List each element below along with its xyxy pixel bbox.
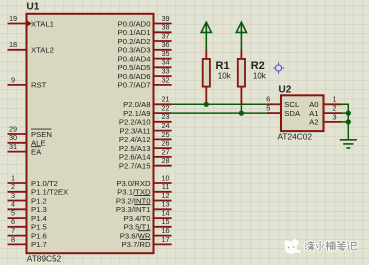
U1 pin 1 (P1.0/T2) [8,173,58,187]
U2 pin 3 (A2) [309,112,342,126]
R2 value label 10k [253,72,267,81]
svg-text:SDA: SDA [284,109,301,118]
U2 pin 6 (SCL) [266,95,300,109]
svg-text:5: 5 [11,209,15,218]
svg-text:8: 8 [11,235,15,244]
svg-text:U1: U1 [27,2,40,13]
svg-text:39: 39 [161,14,169,23]
svg-text:P1.7: P1.7 [31,240,47,249]
U1 pin 15 (P3.5 / T1) [124,217,172,231]
svg-text:1: 1 [332,95,336,104]
U1 pin 5 (P1.4) [8,209,48,223]
junction R2 to SDA wire [239,111,244,116]
svg-text:P0.6/AD6: P0.6/AD6 [118,72,151,81]
ground symbol [340,140,357,148]
U1 pin 37 (P0.2 / AD2) [118,31,172,45]
svg-text:P2.7/A15: P2.7/A15 [119,162,151,171]
svg-text:37: 37 [161,31,169,40]
svg-text:19: 19 [9,14,17,23]
svg-text:9: 9 [11,75,15,84]
svg-text:SCL: SCL [284,100,300,109]
svg-text:6: 6 [266,95,270,104]
power terminal VCC arrow (R2) [236,22,246,49]
svg-text:10k: 10k [253,72,267,81]
svg-text:11: 11 [162,182,170,191]
R2 reference label [251,60,265,72]
U1 pin 33 (P0.6 / AD6) [118,67,172,81]
junction A2 rail [346,119,351,124]
U1 pin 8 (P1.7) [8,235,47,249]
svg-text:P1.0/T2: P1.0/T2 [31,179,58,188]
svg-text:P0.3/AD3: P0.3/AD3 [118,46,151,55]
U1 pin 2 (P1.1/T2EX) [8,182,69,196]
svg-text:33: 33 [161,67,169,76]
svg-text:10: 10 [161,173,169,182]
svg-text:13: 13 [161,200,169,209]
U1 pin 10 (P3.0 / RXD) [116,173,171,187]
junction R1 to SCL wire [204,102,209,107]
svg-text:U2: U2 [279,84,292,95]
svg-text:35: 35 [161,49,169,58]
svg-text:AT89C52: AT89C52 [27,254,62,264]
U1 pin 24 (P2.3 / A11) [119,121,171,135]
svg-text:XTAL2: XTAL2 [31,46,54,55]
svg-text:5: 5 [266,104,270,113]
svg-text:P1.1/T2EX: P1.1/T2EX [31,188,68,197]
svg-text:P2.4/A12: P2.4/A12 [119,135,151,144]
U1 pin 32 (P0.7 / AD7) [118,75,172,89]
svg-text:26: 26 [161,139,169,148]
svg-text:P3.7/RD: P3.7/RD [121,240,151,249]
U2 pin 1 (A0) [309,95,342,109]
svg-text:PSEN: PSEN [31,130,52,139]
svg-text:14: 14 [161,209,169,218]
U1 pin 39 (P0.0 / AD0) [118,14,172,28]
IC U2 AT24C02 body [281,95,324,131]
svg-text:A2: A2 [309,118,318,127]
U1 pin 19 (XTAL1) [8,14,54,28]
U1 pin 29 (PSEN) [8,124,52,138]
U1 pin 28 (P2.7 / A15) [119,156,172,170]
svg-text:P3.3/INT1: P3.3/INT1 [116,205,151,214]
svg-text:7: 7 [11,226,15,235]
U1 reference label [27,2,40,13]
svg-text:AT24C02: AT24C02 [278,131,313,141]
U1 pin 11 (P3.1 / TXD) [117,182,171,196]
svg-text:24: 24 [161,121,169,130]
U1 value label AT89C52 [27,254,62,264]
svg-text:16: 16 [161,226,169,235]
svg-text:R2: R2 [251,60,265,72]
svg-text:P3.4/T0: P3.4/T0 [124,214,151,223]
svg-text:P1.6: P1.6 [31,231,47,240]
U1 pin 38 (P0.1 / AD1) [118,23,172,37]
U2 value label AT24C02 [278,131,313,141]
U1 pin 7 (P1.6) [8,226,47,240]
U1 pin 6 (P1.5) [8,217,47,231]
svg-text:22: 22 [161,104,169,113]
U1 pin 27 (P2.6 / A14) [119,147,172,161]
svg-text:3: 3 [332,112,336,121]
U1 pin 36 (P0.3 / AD3) [118,40,172,54]
wire A1 to ground rail [342,112,348,114]
R1 reference label [216,60,230,72]
U2 reference label [279,84,292,95]
U1 pin 26 (P2.5 / A13) [119,139,172,153]
svg-text:4: 4 [11,200,15,209]
svg-text:36: 36 [161,40,169,49]
svg-text:A1: A1 [309,109,318,118]
U2 pin 2 (A1) [309,104,342,118]
svg-text:12: 12 [161,191,169,200]
svg-text:P2.3/A11: P2.3/A11 [119,126,150,135]
svg-text:P2.6/A14: P2.6/A14 [119,153,151,162]
U1 pin 16 (P3.6 / WR) [120,226,172,240]
U1 pin 21 (P2.0 / A8) [123,95,171,109]
svg-text:P1.3: P1.3 [31,205,47,214]
U1 pin 35 (P0.4 / AD4) [118,49,172,63]
svg-text:RST: RST [31,81,47,90]
wire A2 to ground rail [342,121,348,123]
svg-text:1: 1 [11,173,15,182]
svg-text:23: 23 [161,112,169,121]
U2 pin 5 (SDA) [266,104,301,118]
R1 value label 10k [218,72,232,81]
svg-text:P0.0/AD0: P0.0/AD0 [118,19,151,28]
IC U1 AT89C52 body [27,14,154,253]
junction A1 rail [346,111,351,116]
U1 pin 14 (P3.4 / T0) [124,209,172,223]
svg-text:P2.0/A8: P2.0/A8 [123,100,150,109]
resistor R2 [238,50,245,105]
svg-text:P0.5/AD5: P0.5/AD5 [118,63,151,72]
svg-text:21: 21 [161,95,169,104]
svg-text:6: 6 [11,217,15,226]
svg-text:P0.2/AD2: P0.2/AD2 [118,37,151,46]
svg-text:32: 32 [161,75,169,84]
wire A0 to ground rail [342,104,348,140]
svg-text:P2.5/A13: P2.5/A13 [119,144,151,153]
U1 pin 4 (P1.3) [8,200,47,214]
svg-text:3: 3 [11,191,15,200]
U1 pin 25 (P2.4 / A12) [119,130,172,144]
U1 pin 34 (P0.5 / AD5) [118,58,172,72]
U1 pin 13 (P3.3 / INT1) [116,200,172,214]
svg-text:29: 29 [9,124,17,133]
resistor R1 [203,50,210,105]
U1 pin 30 (ALE) [8,133,46,147]
svg-text:P3.0/RXD: P3.0/RXD [116,179,151,188]
svg-text:P2.1/A9: P2.1/A9 [123,109,150,118]
svg-text:15: 15 [161,217,169,226]
svg-text:27: 27 [161,147,169,156]
svg-text:P1.2: P1.2 [31,196,47,205]
svg-text:XTAL1: XTAL1 [31,19,54,28]
U1 pin 31 (EA) [8,142,43,156]
U1 pin 9 (RST) [8,75,47,89]
U1 pin 22 (P2.1 / A9) [123,104,171,118]
power terminal VCC arrow (R1) [201,22,211,49]
blue origin crosshair marker [273,62,284,73]
svg-text:10k: 10k [218,72,232,81]
U1 pin 17 (P3.7 / RD) [121,235,171,249]
svg-text:P0.4/AD4: P0.4/AD4 [118,54,152,63]
U1 pin 18 (XTAL2) [8,40,54,54]
svg-text:2: 2 [332,104,336,113]
svg-text:P1.5: P1.5 [31,223,47,232]
svg-text:38: 38 [161,23,169,32]
svg-text:P2.2/A10: P2.2/A10 [119,118,151,127]
wire net SDA: U1 P2.1/A9 to U2 SDA [172,112,267,114]
svg-text:31: 31 [9,142,17,151]
watermark text (CJK glyph shapes) [305,241,356,250]
svg-text:R1: R1 [216,60,230,72]
svg-text:P1.4: P1.4 [31,214,48,223]
svg-text:2: 2 [11,182,15,191]
svg-text:A0: A0 [309,100,318,109]
svg-text:17: 17 [161,235,169,244]
svg-text:25: 25 [161,130,169,139]
U1 pin 12 (P3.2 / INT0) [116,191,172,205]
watermark mouse icon [284,239,301,254]
svg-text:P3.6/WR: P3.6/WR [120,231,151,240]
svg-text:30: 30 [9,133,17,142]
svg-text:28: 28 [161,156,169,165]
U1 pin 3 (P1.2) [8,191,47,205]
svg-text:18: 18 [9,40,17,49]
svg-text:EA: EA [31,147,42,156]
wire R2 to SDA net [240,105,242,113]
svg-text:P0.1/AD1: P0.1/AD1 [118,28,151,37]
U1 pin 23 (P2.2 / A10) [119,112,172,126]
svg-text:34: 34 [161,58,169,67]
svg-text:P0.7/AD7: P0.7/AD7 [118,81,151,90]
wire net SCL: U1 P2.0/A8 to U2 SCL [172,103,267,105]
